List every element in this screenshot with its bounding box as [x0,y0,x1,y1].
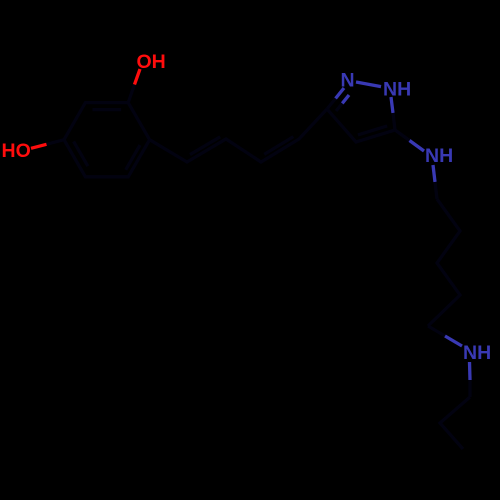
pyrazole N2=C3: blue half [336,88,345,99]
ring double bond inner: C5-C6 [126,145,140,170]
pyrazole N2=C3: skeleton half [327,99,336,110]
NH to T1: blue half [468,362,472,380]
linker double bond twin V3=V4 [264,137,293,155]
NH to T1: skeleton half [468,380,471,397]
bond C1 to OH: red half [135,69,141,85]
N1-N2 bond full blue [356,82,381,87]
linker chain ring to pyrazole [150,109,327,162]
K5 to NH2: blue half [445,336,462,346]
svg-text:NH: NH [383,79,411,101]
bond C3 to HO: red half [31,144,47,148]
svg-text:OH: OH [137,51,166,73]
bond C1 to OH: skeleton half [128,85,134,103]
pyrazole double bond twin C4=C5 [358,126,387,135]
benzene ring (resorcinol) outer [64,103,150,177]
N1-C5 bond: blue half [391,97,393,113]
N1-C5 bond: skeleton half [393,113,395,130]
svg-text:NH: NH [425,145,453,167]
pyrazole ring skeleton C3-C4, C4-C5 [327,109,395,142]
C5 to exocyclic NH: blue half [410,141,425,152]
tail T1-T2-T3 [440,397,470,449]
NH to K1: skeleton half [435,182,437,199]
svg-text:NH: NH [463,342,491,364]
linker double bond twin V1=V2 [190,137,220,155]
bond C3 to HO: skeleton half [47,140,65,145]
pyrazole N2=C3 twin: skeleton half [336,103,342,111]
NH to K1: blue half [433,165,435,182]
ring double bond inner: C3-C4 [74,141,88,166]
ring double bond inner: C1-C2 top [93,108,122,111]
K chain (CH2)5 [428,199,460,326]
svg-text:HO: HO [2,140,31,162]
svg-text:N: N [341,70,355,92]
pyrazole N2=C3 twin: blue half [342,95,349,103]
K5 to NH2: skeleton half [428,326,445,336]
C5 to exocyclic NH: skeleton half [395,130,410,141]
